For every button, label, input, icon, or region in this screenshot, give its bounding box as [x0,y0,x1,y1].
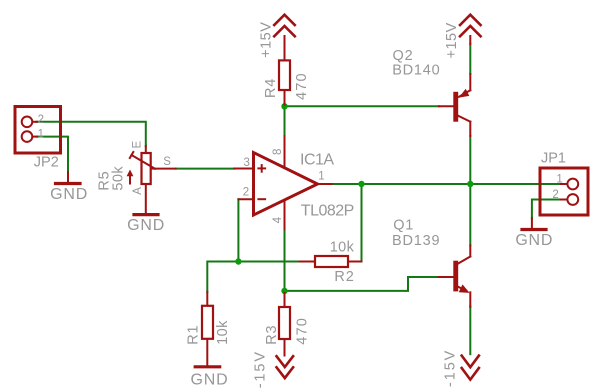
svg-text:10k: 10k [330,240,355,256]
op-amp pin1 output [318,183,332,185]
wire JP2 pin2 to R5 E [37,122,146,147]
wire pin4 net down [284,229,286,291]
wire Q2 collector to output [469,136,471,184]
resistor R3 body [279,307,290,339]
+15V supply symbol left [274,15,295,25]
svg-text:-15V: -15V [442,349,458,387]
svg-text:R1: R1 [185,325,201,345]
svg-text:2: 2 [38,114,44,126]
op-amp plus symbol [258,167,265,169]
wire output to R2 right [361,184,363,262]
svg-text:R2: R2 [334,269,354,285]
resistor R4 body [279,60,290,90]
svg-text:-15V: -15V [252,350,268,388]
transistor Q2 bar [453,92,458,122]
resistor R3 leads [284,293,286,307]
svg-text:R3: R3 [264,325,280,345]
resistor R2 leads [300,261,315,263]
svg-text:50k: 50k [111,166,127,191]
wire pin8 net [284,106,286,136]
svg-text:Q2: Q2 [393,48,414,64]
svg-text:+15V: +15V [444,22,460,58]
junction node output/R2 [358,181,364,187]
svg-text:A: A [132,187,144,195]
op-amp pin8 [284,136,286,168]
junction node pin8/R4 [281,103,287,109]
R5 adjust arrow [129,175,131,184]
svg-text:2: 2 [552,189,558,201]
transistor Q2 base lead [439,105,453,107]
svg-text:TL082P: TL082P [301,203,354,220]
svg-text:1: 1 [38,128,44,140]
svg-text:470: 470 [294,317,310,345]
resistor R1 body [202,306,213,339]
svg-text:IC1A: IC1A [300,152,334,169]
svg-text:GND: GND [50,186,88,203]
wire JP2 pin1 to GND [37,137,69,172]
op-amp minus symbol [258,198,265,200]
svg-text:GND: GND [191,371,229,388]
potentiometer R5 leads [145,146,147,154]
ground under R5 [134,213,158,216]
potentiometer R5 body [142,153,151,184]
svg-text:Q1: Q1 [393,218,414,234]
ground under JP1 [531,218,533,228]
svg-text:470: 470 [294,72,310,100]
svg-text:3: 3 [244,157,250,169]
svg-text:BD140: BD140 [392,63,440,79]
svg-text:2: 2 [243,187,249,199]
wire output to Q1 collector [469,184,471,245]
svg-text:GND: GND [515,232,553,249]
JP1 pad circles [567,179,578,190]
junction node feedback/R1 [235,258,241,264]
svg-text:R4: R4 [263,78,279,98]
svg-text:1: 1 [556,173,562,185]
transistor Q1 base lead [439,276,454,278]
svg-text:BD139: BD139 [392,233,440,249]
transistor Q1 bar [453,261,458,292]
svg-text:JP1: JP1 [541,151,566,167]
JP2 pad circles [22,117,33,128]
wire JP1 pin2 to GND [532,200,562,219]
op-amp pin4 [284,200,286,229]
wire Q2 emitter to +15V [469,44,471,74]
JP1 pin stubs [561,183,568,185]
wire feedback horizontal R2-left to R1 [207,262,299,293]
svg-text:GND: GND [127,217,165,234]
svg-text:10k: 10k [215,320,231,345]
wire +15V rail to Q2 base [285,105,440,107]
svg-text:4: 4 [272,216,284,223]
svg-text:E: E [132,141,144,149]
ground under R1 [195,365,220,368]
svg-text:1: 1 [318,171,324,183]
connector JP1 box [540,168,588,215]
ground under JP2 [67,172,69,182]
transistor Q2 collector [458,116,470,122]
op-amp pin3 [234,168,254,170]
resistor R4 leads [284,36,286,60]
transistor Q2 emitter [469,74,471,90]
svg-text:8: 8 [272,149,284,155]
wire R3 node to Q1 base [285,277,439,291]
transistor Q1 emitter [458,287,463,290]
R5 wiper diagonal [132,155,156,169]
resistor R2 body [315,256,348,267]
svg-text:S: S [163,156,171,168]
-15V supply symbol under Q1 [462,356,479,368]
wire Q1 emitter to -15V [469,306,471,354]
svg-text:JP2: JP2 [34,155,59,171]
op-amp pin2 [238,198,253,200]
junction node R3/Q1-base [281,288,287,294]
wire R5 S to opamp pin3 [176,168,235,170]
resistor R1 leads [206,292,208,306]
JP2 pin stubs [32,121,37,123]
wire output net [332,183,562,185]
op-amp IC1A triangle [254,153,318,216]
+15V supply symbol right [469,36,471,44]
transistor Q1 collector [458,257,470,264]
wire opamp pin2 feedback vertical [237,199,239,261]
junction node output/Q-collectors [467,181,473,187]
svg-text:+15V: +15V [258,22,274,58]
-15V supply symbol under R3 [277,356,294,367]
connector JP2 box [15,107,61,154]
